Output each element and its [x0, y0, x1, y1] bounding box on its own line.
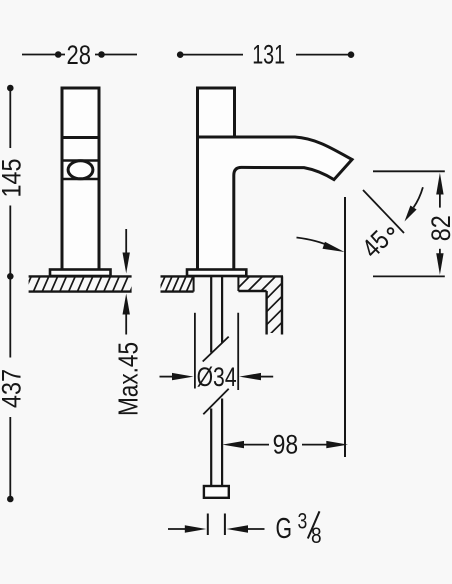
right counter left strip top line — [161, 275, 194, 277]
left counter hatch lines — [24, 277, 137, 293]
left faucet body column — [62, 88, 99, 270]
left counter bottom line — [29, 290, 132, 292]
dimension O34 left extension line — [194, 313, 196, 389]
dimension 98 line right segment — [302, 444, 327, 446]
right counter L-section inner vertical edge — [265, 291, 267, 335]
spout outlet leader arrow curve — [297, 238, 331, 247]
dimension G3/8 right arrow head — [227, 525, 249, 532]
svg-text:437: 437 — [0, 369, 27, 408]
45 degree extension diagonal line — [363, 190, 404, 233]
left counter top line — [29, 275, 132, 277]
dimension 28 left dot — [55, 51, 62, 58]
left vertical dimension line segment c (437 lower) — [9, 417, 11, 499]
45 degree arc leader — [414, 187, 423, 207]
degree symbol of 45deg — [388, 228, 394, 234]
dimension dot top (145) — [7, 85, 14, 92]
dimension dot bottom (437) — [7, 496, 14, 503]
Max.45 lower arrow head — [123, 294, 130, 315]
dimension G3/8 right arrow shaft — [246, 528, 265, 530]
left faucet divider line upper — [62, 136, 99, 139]
dimension O34 left arrow head — [172, 373, 194, 380]
dimension 28 line right segment — [95, 54, 137, 56]
left faucet divider line lower — [62, 178, 99, 181]
svg-text:8: 8 — [311, 523, 322, 548]
dimension 98 right extension line (spout outlet projection) — [344, 197, 346, 457]
supply pipe left line upper segment — [210, 277, 212, 353]
left vertical dimension line segment b (145 lower / 437 upper) — [9, 206, 11, 358]
dimension G3/8 left tick — [207, 514, 209, 536]
right counter L-section right edge — [281, 276, 283, 334]
pipe break slash lower — [203, 389, 228, 415]
dimension O34 right extension line — [237, 313, 239, 390]
dimension 82 top extension line — [373, 170, 445, 172]
dimension 98 right arrow head — [326, 441, 348, 448]
dimension 131 line right segment — [296, 54, 351, 56]
dimension O34 left arrow shaft — [160, 376, 175, 378]
left faucet divider line middle — [62, 159, 99, 162]
dimension 131 line left segment — [180, 54, 243, 56]
dimension 82 bottom arrow head — [436, 253, 443, 275]
dimension O34 right arrow head — [239, 373, 261, 380]
right counter left strip hatch lines — [158, 277, 200, 293]
right faucet base plate — [187, 270, 246, 277]
Max.45 upper arrow shaft — [125, 229, 127, 254]
bottom connector block G3/8 — [204, 486, 229, 498]
svg-text:145: 145 — [0, 159, 26, 198]
svg-text:28: 28 — [67, 40, 92, 70]
right counter left strip bottom line — [161, 290, 194, 292]
supply pipe left line lower segment — [210, 409, 212, 487]
45 degree arc arrow head — [405, 206, 417, 222]
svg-text:G: G — [276, 513, 293, 545]
supply pipe right line lower segment — [221, 399, 223, 487]
right counter L-section hatch lines (45 deg) — [231, 276, 303, 378]
left faucet handle ellipse — [68, 161, 93, 179]
pipe break slash upper — [203, 337, 229, 362]
dimension G3/8 right tick — [224, 514, 226, 536]
Max.45 upper arrow head — [123, 253, 130, 274]
fraction slash — [308, 511, 320, 538]
dimension 82 top arrow head — [436, 173, 443, 195]
dimension dot middle (145/437) — [7, 273, 14, 280]
dimension 131 right dot — [348, 51, 355, 58]
right counter L-section inner horizontal edge — [238, 290, 266, 292]
svg-text:Max.45: Max.45 — [112, 342, 143, 416]
dimension G3/8 left arrow shaft — [168, 528, 187, 530]
dimension 98 left arrow head — [222, 441, 244, 448]
left vertical dimension line segment a (145 upper) — [9, 88, 11, 148]
dimension 98 line left segment — [243, 444, 269, 446]
dimension 82 lower shaft — [439, 249, 441, 255]
svg-text:131: 131 — [252, 40, 285, 70]
right counter hole left edge — [193, 276, 195, 291]
dimension 28 right dot — [98, 51, 105, 58]
spout outlet leader arrow head — [323, 242, 345, 252]
svg-text:82: 82 — [426, 215, 452, 241]
dimension 28 line left segment — [22, 54, 65, 56]
Max.45 lower arrow shaft — [125, 313, 127, 335]
supply pipe right line upper segment — [221, 277, 223, 343]
svg-text:Ø34: Ø34 — [197, 362, 237, 392]
svg-text:3: 3 — [298, 508, 308, 533]
right faucet handle — [198, 88, 235, 137]
right counter L-section top line — [238, 275, 283, 277]
dimension 82 upper shaft — [439, 193, 441, 208]
dimension 82 bottom extension line — [373, 275, 445, 277]
right faucet body and spout outline — [198, 137, 353, 270]
dimension 131 left dot — [177, 51, 184, 58]
dimension G3/8 left arrow head — [185, 525, 207, 532]
dimension O34 right arrow shaft — [259, 376, 273, 378]
left faucet base plate — [50, 270, 111, 277]
right counter hole right edge — [237, 276, 239, 291]
svg-text:98: 98 — [273, 430, 299, 460]
